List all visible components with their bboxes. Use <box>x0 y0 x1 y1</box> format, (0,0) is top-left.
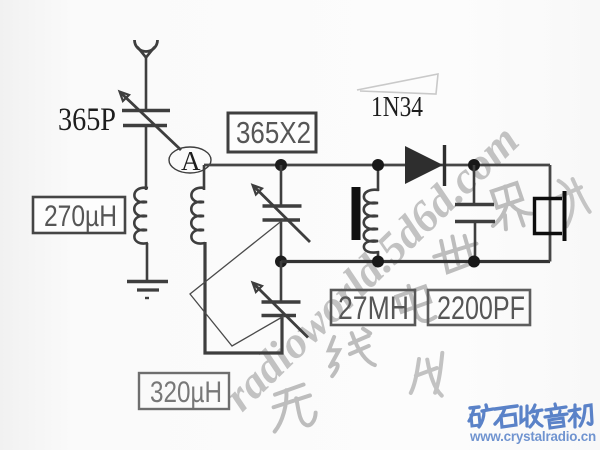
watermark Chinese character 线 <box>324 327 377 376</box>
capacitor 2200PF <box>455 165 495 261</box>
收 <box>521 405 542 427</box>
junction dot top wire / 2200PF <box>468 159 480 171</box>
scribble mark above 1N34 <box>357 74 438 94</box>
label box 270uH <box>33 197 125 233</box>
watermark Chinese character 无 <box>266 383 318 432</box>
junction dot top wire / C1a <box>275 159 287 171</box>
label box 320uH <box>139 373 229 409</box>
svg-text:A: A <box>181 146 201 176</box>
inductor 27MH coil <box>364 165 379 261</box>
wire middle <box>281 260 550 263</box>
watermark stroke below 27MH box <box>405 353 450 401</box>
junction dot middle wire / 27MH <box>372 256 384 268</box>
watermark Chinese character 世 <box>431 232 481 274</box>
watermark Chinese character 电 <box>395 282 436 326</box>
svg-text:270µH: 270µH <box>44 200 117 233</box>
diode 1N34 <box>405 145 445 186</box>
variable capacitor C1a (365X2 section 1) <box>253 165 311 261</box>
矿 <box>469 405 493 427</box>
gang linkage line <box>190 219 284 346</box>
机 <box>569 405 592 427</box>
label box 365X2 <box>228 113 316 152</box>
logo 矿石收音机 (blue brush text) <box>469 404 592 428</box>
音 <box>545 404 567 428</box>
watermark radioworld.5d6d.com <box>214 115 528 421</box>
watermark stroke right of earphone <box>553 175 592 227</box>
label box 2200PF <box>428 290 530 326</box>
svg-text:www.crystalradio.cn: www.crystalradio.cn <box>469 429 596 444</box>
inductor 270uH coil <box>134 126 148 282</box>
svg-text:27MH: 27MH <box>338 290 409 326</box>
variable capacitor C1b (365X2 section 2) <box>253 261 309 338</box>
svg-text:365P: 365P <box>58 102 116 138</box>
svg-text:2200PF: 2200PF <box>437 290 525 326</box>
svg-text:1N34: 1N34 <box>371 92 423 123</box>
inductor 320uH coil <box>191 165 205 244</box>
svg-text:320µH: 320µH <box>150 376 222 409</box>
watermark Chinese character 界 <box>485 181 533 231</box>
junction dot middle wire / 2200PF <box>468 256 480 268</box>
wire top <box>204 164 550 167</box>
junction dot middle wire / C1a-C1b <box>275 256 287 268</box>
antenna <box>135 40 158 110</box>
node A <box>169 146 211 176</box>
junction dot top wire / 27MH <box>372 159 384 171</box>
石 <box>495 406 517 427</box>
variable capacitor 365P <box>120 92 182 151</box>
svg-text:365X2: 365X2 <box>236 115 311 150</box>
wire bottom (320uH to cap C1b) <box>205 242 282 353</box>
label box 27MH <box>331 290 415 326</box>
ground <box>127 282 168 299</box>
earphone <box>535 191 565 241</box>
wire right (top wire down to earphone and up from middle wire) <box>549 165 552 262</box>
inductor 27MH core bar <box>352 187 361 240</box>
